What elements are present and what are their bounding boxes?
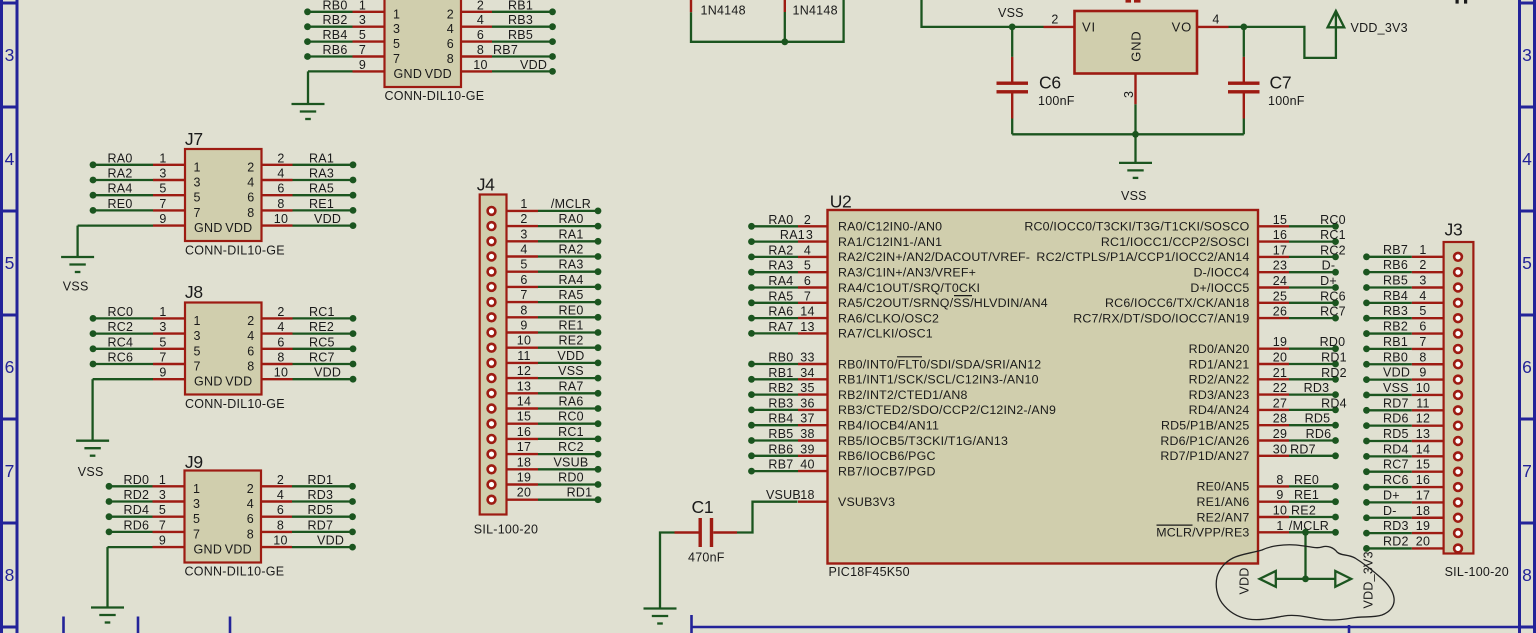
svg-text:RB7/IOCB7/PGD: RB7/IOCB7/PGD [838,464,936,478]
svg-text:J9: J9 [185,452,203,472]
wire J6 pin 9 (GND) [308,58,385,72]
wire J8 pin 6 (net RC5) [262,335,357,352]
svg-text:D+: D+ [1320,274,1337,288]
svg-text:8: 8 [5,565,15,585]
svg-text:RD0: RD0 [124,473,150,487]
svg-text:19: 19 [517,471,531,485]
svg-text:VSS: VSS [558,364,584,378]
svg-text:RB0/INT0/FLT0/SDI/SDA/SRI/AN12: RB0/INT0/FLT0/SDI/SDA/SRI/AN12 [838,357,1041,371]
U2 pin 24 (D+) wire [1190,274,1339,295]
svg-text:13: 13 [517,379,531,393]
regulator pin 2 (VI) wire [1012,12,1074,27]
svg-text:25: 25 [1273,289,1287,303]
wire J7 pin 2 (net RA1) [262,151,357,168]
svg-text:RB0: RB0 [768,351,793,365]
svg-text:2: 2 [1419,258,1426,272]
wire J4 pin 6 (net RA4) [488,273,602,291]
svg-text:18: 18 [800,488,814,502]
U2 pin 18 (VSUB) [766,488,895,509]
svg-text:D+: D+ [1383,488,1400,502]
U2 pin 27 (RD4) wire [1189,396,1347,417]
svg-text:3: 3 [159,320,166,334]
svg-text:RA4/C1OUT/SRQ/T0CKI: RA4/C1OUT/SRQ/T0CKI [838,281,980,295]
J3 pin 16 (RC6) wire [1363,473,1462,491]
svg-text:5: 5 [1522,253,1532,273]
wire J7 pin 5 (net RA4) [90,182,185,199]
svg-text:RC4: RC4 [108,335,134,349]
svg-text:3: 3 [159,167,166,181]
svg-text:2: 2 [520,212,527,226]
wire J8 pin 8 (net RC7) [262,351,357,368]
svg-text:6: 6 [477,28,484,42]
svg-text:15: 15 [1416,458,1430,472]
svg-text:RC0: RC0 [108,305,134,319]
J3 pin 9 (VDD) wire [1363,366,1462,384]
svg-text:RE2: RE2 [309,320,334,334]
J3 pin 20 (RD2) wire [1363,534,1462,552]
U2 pin 8 (RE0) wire [1196,473,1338,494]
svg-text:6: 6 [277,182,284,196]
svg-text:33: 33 [800,351,814,365]
svg-text:7: 7 [1419,335,1426,349]
svg-text:RE0: RE0 [1294,473,1319,487]
capacitor C6 (100nF) [997,27,1075,134]
svg-text:RD6: RD6 [124,518,150,532]
svg-text:7: 7 [520,288,527,302]
svg-text:RA5: RA5 [768,289,793,303]
svg-text:RE1: RE1 [558,319,583,333]
svg-text:3: 3 [159,488,166,502]
svg-text:5: 5 [5,253,15,273]
U2 pin 37 (RB4) wire [748,412,939,433]
ground (C1, net VSS) [644,609,677,624]
svg-text:9: 9 [159,212,166,226]
svg-text:RB5: RB5 [1383,274,1408,288]
wire J4 pin 11 (net VDD) [488,349,602,367]
svg-text:4: 4 [247,176,254,190]
svg-text:11: 11 [517,349,530,363]
wire C1 right to U2 VSUB pin [737,502,798,533]
svg-text:RA3: RA3 [768,259,793,273]
svg-text:RE1: RE1 [1294,488,1319,502]
svg-text:RA3: RA3 [558,258,583,272]
svg-text:23: 23 [1273,259,1287,273]
svg-text:RD2: RD2 [1321,366,1347,380]
wire J6 pin 3 (net RB2) [304,13,384,30]
svg-text:RB1/INT1/SCK/SCL/C12IN3-/AN10: RB1/INT1/SCK/SCL/C12IN3-/AN10 [838,373,1039,387]
svg-text:VDD: VDD [314,366,341,380]
svg-text:VDD: VDD [1238,567,1252,594]
svg-text:RA1/C12IN1-/AN1: RA1/C12IN1-/AN1 [838,235,942,249]
svg-text:RA0: RA0 [558,212,583,226]
svg-text:6: 6 [1522,357,1532,377]
power flag VDD_3V3 (right arrow) [1335,551,1375,608]
node VSS (J7 ground label) [63,280,89,294]
wire J4 pin 1 (net /MCLR) [488,197,602,215]
svg-text:RD0: RD0 [558,471,584,485]
connector J8 (CONN-DIL10-GE) [185,282,285,411]
svg-text:RB7: RB7 [1383,243,1408,257]
wire J4 pin 4 (net RA2) [488,243,602,261]
svg-text:RA1: RA1 [558,227,583,241]
svg-text:CONN-DIL10-GE: CONN-DIL10-GE [185,397,285,411]
wire J8 pin 7 (net RC6) [90,351,185,368]
svg-text:VDD: VDD [225,221,252,235]
svg-text:RE1: RE1 [309,197,334,211]
svg-text:VDD: VDD [1383,366,1410,380]
svg-text:6: 6 [520,273,527,287]
svg-text:RB6: RB6 [323,43,348,57]
svg-text:3: 3 [1522,45,1532,65]
wire J4 pin 17 (net RC2) [488,440,602,458]
U2 pin 7 (RA5) wire [748,289,1048,310]
wire VO to VDD_3V3 flag [1244,27,1336,58]
svg-text:4: 4 [1419,289,1426,303]
svg-text:/MCLR: /MCLR [551,197,591,211]
svg-text:4: 4 [804,243,811,257]
wire J4 pin 13 (net RA7) [488,379,602,397]
svg-text:RB0: RB0 [323,0,348,12]
svg-text:1N4148: 1N4148 [701,4,746,18]
wire J8 pin 5 (net RC4) [90,335,185,352]
svg-text:MCLR/VPP/RE3: MCLR/VPP/RE3 [1156,526,1249,540]
diode D1 (1N4148, cropped) [691,0,746,18]
svg-text:6: 6 [277,335,284,349]
U2 pin 19 (RD0) wire [1189,335,1346,356]
svg-text:16: 16 [517,425,531,439]
svg-text:RE0: RE0 [108,197,133,211]
J3 pin 17 (D+) wire [1363,488,1462,506]
svg-text:RD6: RD6 [1306,427,1332,441]
svg-text:5: 5 [194,344,201,358]
svg-text:16: 16 [1416,473,1430,487]
wire /MCLR to power flags [1276,529,1336,582]
svg-text:RD1/AN21: RD1/AN21 [1189,357,1250,371]
svg-text:RD3: RD3 [1383,519,1409,533]
svg-text:4: 4 [477,13,484,27]
svg-text:RB4/IOCB4/AN11: RB4/IOCB4/AN11 [838,419,939,433]
svg-text:VDD: VDD [557,349,584,363]
svg-text:RC1: RC1 [1320,228,1346,242]
svg-text:10: 10 [274,366,288,380]
svg-text:100nF: 100nF [1268,94,1305,108]
svg-text:7: 7 [159,197,166,211]
freehand annotation loop [1216,545,1394,620]
svg-text:VSS: VSS [63,280,89,294]
svg-text:RA5/C2OUT/SRNQ/SS/HLVDIN/AN4: RA5/C2OUT/SRNQ/SS/HLVDIN/AN4 [838,296,1048,310]
power flag VDD_3V3 (top right) [1328,11,1408,35]
wire J6 pin 2 (net RB1) [461,0,556,15]
wire J8 pin 3 (net RC2) [90,320,185,337]
svg-text:J7: J7 [185,129,203,149]
J3 pin 2 (RB6) wire [1363,258,1462,276]
ground (J8 pin 9, net VSS) [76,379,109,456]
wire J7 pin 8 (net RE1) [262,197,357,214]
svg-text:RE2: RE2 [1291,504,1316,518]
wire J6 pin 8 (net RB7) [461,43,556,60]
wire J8 pin 10 (net VDD) [262,366,357,383]
svg-text:16: 16 [1273,228,1287,242]
svg-text:4: 4 [277,320,284,334]
wire J9 pin 9 (GND) [108,534,185,548]
svg-text:RA4: RA4 [558,273,583,287]
svg-text:RB2: RB2 [768,381,793,395]
svg-text:VI: VI [1082,19,1096,34]
svg-text:RA0: RA0 [108,151,133,165]
svg-text:RC6/IOCC6/TX/CK/AN18: RC6/IOCC6/TX/CK/AN18 [1105,296,1249,310]
svg-text:2: 2 [477,0,484,12]
wire J4 pin 12 (net VSS) [488,364,602,382]
wire J9 pin 8 (net RD7) [261,518,356,535]
wire J4 pin 3 (net RA1) [488,227,602,245]
U2 pin 20 (RD1) wire [1189,351,1347,372]
svg-text:1: 1 [359,0,366,12]
svg-text:GND: GND [194,221,223,235]
svg-text:RD4: RD4 [1321,396,1347,410]
svg-text:4: 4 [247,329,254,343]
svg-text:1: 1 [193,482,200,496]
svg-text:RB3/CTED2/SDO/CCP2/C12IN2-/AN9: RB3/CTED2/SDO/CCP2/C12IN2-/AN9 [838,403,1056,417]
svg-text:RD3/AN23: RD3/AN23 [1189,388,1250,402]
svg-text:2: 2 [277,473,284,487]
svg-text:2: 2 [447,7,454,21]
svg-text:470nF: 470nF [688,551,725,565]
svg-text:D-: D- [1322,259,1336,273]
wire VSS feed to regulator input [922,0,1013,27]
svg-text:RD0: RD0 [1320,335,1346,349]
svg-text:1N4148: 1N4148 [793,4,838,18]
U2 pin 15 (RC0) wire [1024,213,1346,234]
connector J7 (CONN-DIL10-GE) [185,129,285,258]
svg-text:3: 3 [359,13,366,27]
svg-text:7: 7 [359,43,366,57]
J3 pin 10 (VSS) wire [1363,381,1462,399]
svg-text:2: 2 [247,160,254,174]
svg-text:8: 8 [1276,473,1283,487]
svg-text:3: 3 [194,176,201,190]
svg-text:RC1: RC1 [558,425,584,439]
power flag VDD (left arrow) [1238,567,1276,594]
svg-text:3: 3 [5,45,15,65]
wire J9 pin 4 (net RD3) [261,488,356,505]
regulator pin 3 (GND) wire [1122,74,1136,135]
svg-text:6: 6 [1419,320,1426,334]
overline FLT0 (U2 RB0 pin name) [897,356,922,358]
svg-text:RA7/CLKI/OSC1: RA7/CLKI/OSC1 [838,327,933,341]
svg-text:19: 19 [1273,335,1287,349]
svg-text:RD7: RD7 [1290,442,1316,456]
svg-text:14: 14 [1416,442,1430,456]
svg-text:J4: J4 [477,174,495,194]
svg-text:RB1: RB1 [1383,335,1408,349]
U2 pin 23 (D-) wire [1194,259,1339,280]
svg-text:4: 4 [1212,12,1219,26]
svg-text:3: 3 [1122,91,1136,98]
U2 pin 17 (RC2) wire [1036,243,1345,264]
svg-text:C1: C1 [692,497,714,517]
svg-text:RC6: RC6 [108,351,134,365]
svg-text:28: 28 [1273,412,1287,426]
svg-text:RC7/RX/DT/SDO/IOCC7/AN19: RC7/RX/DT/SDO/IOCC7/AN19 [1073,311,1249,325]
svg-text:RB2: RB2 [323,13,348,27]
svg-text:RB1: RB1 [508,0,533,12]
U2 pin 1 (/MCLR) wire [1156,519,1339,540]
wire J4 pin 8 (net RE0) [488,303,602,321]
svg-text:1: 1 [159,305,166,319]
wire J4 pin 20 (net RD1) [488,486,602,504]
wire J4 pin 19 (net RD0) [488,471,602,489]
svg-text:CONN-DIL10-GE: CONN-DIL10-GE [385,89,485,103]
svg-text:RE0/AN5: RE0/AN5 [1196,480,1249,494]
wire J4 pin 7 (net RA5) [488,288,602,306]
svg-text:3: 3 [806,228,813,242]
svg-text:26: 26 [1273,305,1287,319]
J3 pin 14 (RD4) wire [1363,442,1462,460]
svg-text:VDD_3V3: VDD_3V3 [1351,21,1408,35]
svg-text:RC6: RC6 [1383,473,1409,487]
svg-text:8: 8 [447,52,454,66]
svg-text:6: 6 [247,191,254,205]
svg-text:U2: U2 [830,192,852,212]
svg-text:35: 35 [800,381,814,395]
svg-text:C7: C7 [1270,73,1292,93]
U2 pin 14 (RA6) wire [748,305,939,326]
svg-text:RD3: RD3 [1304,381,1330,395]
svg-text:RB6/IOCB6/PGC: RB6/IOCB6/PGC [838,449,936,463]
svg-text:RA2: RA2 [768,243,793,257]
wire J9 pin 3 (net RD2) [106,488,185,505]
connector J3 (SIL-100-20) [1444,220,1509,580]
svg-text:9: 9 [359,58,366,72]
svg-text:SIL-100-20: SIL-100-20 [1445,565,1509,579]
J3 pin 13 (RD5) wire [1363,427,1462,445]
svg-text:14: 14 [517,395,531,409]
J3 pin 4 (RB4) wire [1363,289,1462,307]
J3 pin 1 (RB7) wire [1363,243,1462,261]
wire regulator ground rail [1012,131,1244,138]
svg-text:6: 6 [277,503,284,517]
svg-text:1: 1 [520,197,527,211]
svg-text:12: 12 [517,364,531,378]
svg-text:RB3: RB3 [508,13,533,27]
svg-text:CONN-DIL10-GE: CONN-DIL10-GE [185,243,285,257]
svg-text:RE2: RE2 [558,334,583,348]
svg-text:RA2/C2IN+/AN2/DACOUT/VREF-: RA2/C2IN+/AN2/DACOUT/VREF- [838,250,1030,264]
svg-text:RD5: RD5 [1383,427,1409,441]
svg-text:11: 11 [1416,396,1429,410]
svg-text:RA3/C1IN+/AN3/VREF+: RA3/C1IN+/AN3/VREF+ [838,266,976,280]
U2 pin 39 (RB6) wire [748,442,936,463]
svg-text:GND: GND [194,543,223,557]
svg-text:RD1: RD1 [567,486,593,500]
svg-text:RC6: RC6 [1320,289,1346,303]
svg-text:3: 3 [520,227,527,241]
svg-text:29: 29 [1273,427,1287,441]
svg-text:PIC18F45K50: PIC18F45K50 [829,565,910,579]
svg-text:3: 3 [393,22,400,36]
svg-text:20: 20 [517,486,531,500]
svg-text:6: 6 [247,512,254,526]
U2 pin 9 (RE1) wire [1196,488,1338,509]
U2 pin 2 (RA0) wire [748,213,942,234]
wire J6 pin 1 (net RB0) [304,0,384,15]
wire diode bottoms join [691,0,844,45]
svg-text:RB4: RB4 [1383,289,1408,303]
svg-text:RC0: RC0 [558,410,584,424]
U2 pin 13 (RA7) wire [748,320,933,341]
U2 pin 36 (RB3) wire [748,396,1056,417]
svg-text:RC2: RC2 [1320,243,1346,257]
U2 pin 5 (RA3) wire [748,259,976,280]
svg-text:8: 8 [277,351,284,365]
svg-text:2: 2 [277,151,284,165]
svg-text:RD7: RD7 [1383,396,1409,410]
svg-text:RB4: RB4 [768,412,793,426]
wire J9 pin 1 (net RD0) [106,473,185,490]
svg-text:VDD: VDD [225,375,252,389]
wire J4 pin 18 (net VSUB) [488,455,602,473]
svg-text:RB2/INT2/CTED1/AN8: RB2/INT2/CTED1/AN8 [838,388,968,402]
wire J9 pin 10 (net VDD) [261,534,356,551]
svg-text:10: 10 [1416,381,1430,395]
svg-text:3: 3 [193,497,200,511]
svg-text:5: 5 [193,512,200,526]
svg-text:20: 20 [1273,351,1287,365]
svg-text:2: 2 [804,213,811,227]
U2 pin 22 (RD3) wire [1189,381,1339,402]
svg-text:RD4/AN24: RD4/AN24 [1189,403,1250,417]
svg-text:VSUB: VSUB [766,488,801,502]
overline SS (U2 RA5 pin name) [954,295,972,297]
svg-text:5: 5 [159,503,166,517]
svg-text:RD4: RD4 [1383,442,1409,456]
svg-text:RA4: RA4 [768,274,793,288]
svg-text:VDD_3V3: VDD_3V3 [1362,551,1376,608]
svg-text:1: 1 [159,151,166,165]
svg-text:20: 20 [1416,534,1430,548]
J3 pin 15 (RC7) wire [1363,458,1462,476]
svg-text:2: 2 [247,314,254,328]
svg-text:D-: D- [1383,504,1397,518]
U2 pin 4 (RA2) wire [748,243,1030,264]
svg-text:RA4: RA4 [108,182,133,196]
svg-text:7: 7 [5,461,15,481]
svg-text:8: 8 [247,206,254,220]
diode D2 (1N4148, cropped) [785,0,838,18]
svg-text:17: 17 [1416,488,1430,502]
svg-text:VSUB3V3: VSUB3V3 [838,495,895,509]
svg-text:4: 4 [277,167,284,181]
U2 pin 10 (RE2) wire [1196,504,1338,525]
svg-text:8: 8 [247,527,254,541]
svg-text:5: 5 [393,37,400,51]
svg-text:RB6: RB6 [1383,258,1408,272]
svg-text:RB7: RB7 [768,458,793,472]
svg-text:SIL-100-20: SIL-100-20 [474,523,538,537]
J3 pin 11 (RD7) wire [1363,396,1462,414]
svg-text:/MCLR: /MCLR [1289,519,1329,533]
svg-text:5: 5 [1419,304,1426,318]
wire J9 pin 7 (net RD6) [106,518,185,535]
wire J6 pin 5 (net RB4) [304,28,384,45]
U2 pin 33 (RB0) wire [748,351,1041,372]
svg-text:3: 3 [1419,274,1426,288]
svg-text:9: 9 [520,319,527,333]
svg-text:17: 17 [517,440,531,454]
svg-text:RD5/P1B/AN25: RD5/P1B/AN25 [1161,419,1250,433]
svg-text:RA1: RA1 [780,228,805,242]
node VSS (J8 ground label) [78,465,104,479]
